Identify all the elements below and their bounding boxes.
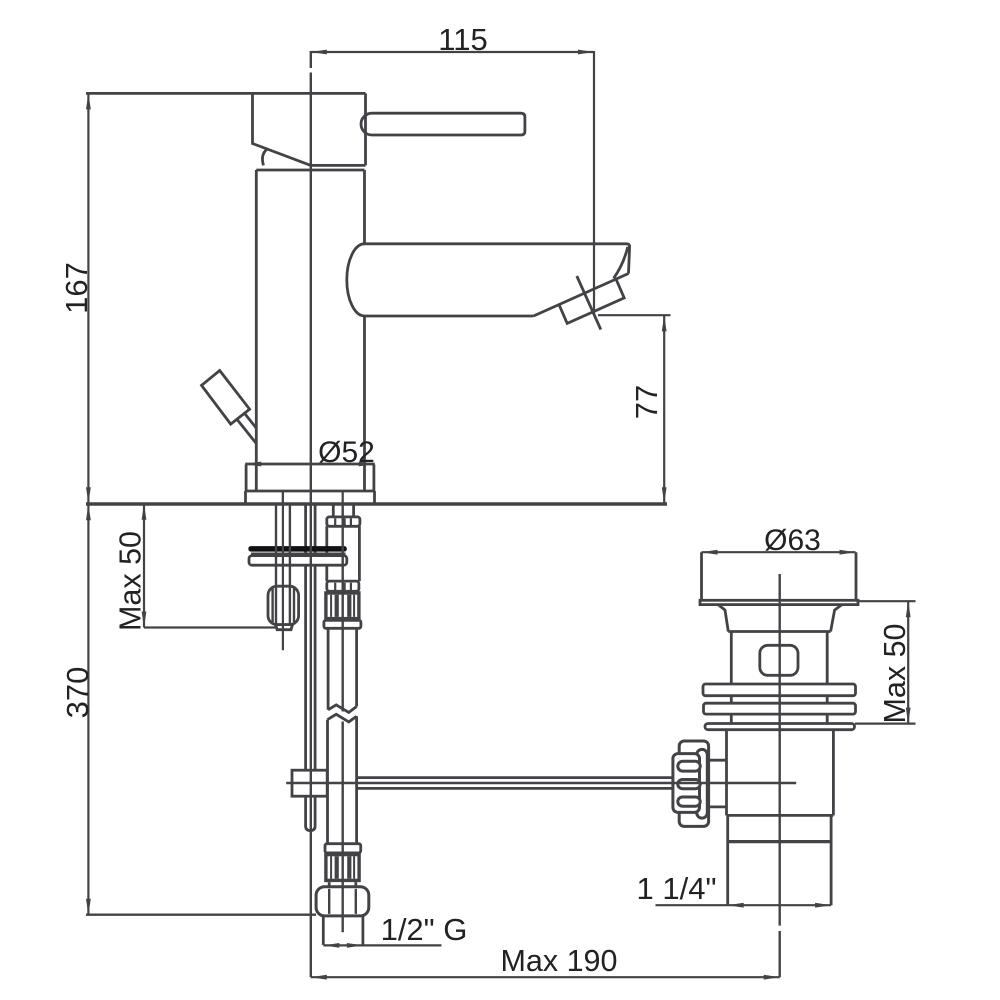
hose flexible tube with break <box>328 628 357 843</box>
dimension lines <box>88 51 915 977</box>
faucet body column <box>256 170 364 491</box>
drain centerline <box>779 574 781 977</box>
spout <box>347 244 630 316</box>
arrowheads <box>86 50 911 980</box>
braided section lower <box>325 853 359 882</box>
drain: upper body <box>731 632 827 685</box>
drain: body stubs 2 <box>731 714 827 723</box>
svg-text:Max 50: Max 50 <box>878 623 912 723</box>
dim Max50 right <box>907 601 909 723</box>
svg-text:77: 77 <box>629 385 664 419</box>
drain: flange body <box>702 552 857 600</box>
hose tail thread <box>323 916 363 945</box>
hose upper tube <box>327 526 360 581</box>
mounting nut <box>268 586 299 624</box>
hose ferrule 2 <box>325 844 361 853</box>
svg-text:1 1/4": 1 1/4" <box>637 871 717 906</box>
threaded stud pair <box>276 504 290 625</box>
drain: clamp pills <box>678 761 700 806</box>
hose hex nut 1/2" <box>316 887 369 916</box>
dim Max 190 <box>311 976 780 978</box>
handle lever <box>361 113 525 135</box>
bottom hose reference line <box>86 914 316 916</box>
dim 1/2 G <box>323 944 441 946</box>
drain: washer plate 1 <box>703 684 856 696</box>
base flange with diameter line <box>245 464 375 504</box>
dim 77 <box>663 315 665 503</box>
svg-text:1/2" G: 1/2" G <box>381 912 468 947</box>
dim 1 1/4 <box>656 904 832 906</box>
drain: coupling line <box>728 840 831 843</box>
svg-text:115: 115 <box>438 22 487 57</box>
drain: washer plate 2 <box>704 703 856 714</box>
hose crown nut 1 <box>327 517 360 526</box>
svg-text:Ø63: Ø63 <box>764 524 821 557</box>
supply hose: top pipe <box>333 506 353 517</box>
drain: neck <box>718 605 842 632</box>
horizontal rod centerline <box>286 782 796 784</box>
deck / countertop line <box>86 502 667 505</box>
drain: clamp boss <box>709 760 727 807</box>
svg-text:167: 167 <box>59 262 94 314</box>
drain: clamp inner <box>673 754 700 813</box>
faucet cap (upper housing) <box>86 93 366 165</box>
aerator (tilted) <box>559 276 624 330</box>
stud centerline <box>282 492 284 650</box>
mounting: black gasket <box>248 546 346 552</box>
dim O63 <box>702 551 856 553</box>
dim 115 <box>311 51 594 53</box>
svg-text:370: 370 <box>60 667 95 719</box>
drain: tailpipe <box>728 815 831 905</box>
svg-text:Ø52: Ø52 <box>318 436 375 469</box>
svg-text:Max 190: Max 190 <box>501 944 618 978</box>
horizontal pop-up rod outline <box>358 778 682 789</box>
dim 167/370 line <box>87 93 89 914</box>
drain: thin washer plate 3 <box>705 724 855 730</box>
long centerline left <box>310 51 312 977</box>
drain: rim <box>700 600 858 604</box>
hose ferrule 1 <box>324 620 361 628</box>
hose centerline <box>342 506 344 933</box>
drain: clamp outer <box>679 741 708 826</box>
drain: overflow hole <box>760 645 798 675</box>
dim Max50 left <box>143 504 145 628</box>
drain: clamp side pill <box>697 749 708 818</box>
rod connector block <box>292 770 327 796</box>
side lever knob <box>202 371 257 444</box>
hose end stubs <box>329 882 356 887</box>
mounting: metal washer <box>249 556 347 566</box>
braided section upper <box>325 591 359 620</box>
drain: lower body <box>727 730 834 816</box>
hose crown nut 2 <box>327 581 359 591</box>
drain: body stubs <box>731 696 827 704</box>
vertical pop-up rod <box>306 504 316 831</box>
mounting: washer line <box>251 552 346 554</box>
svg-text:Max 50: Max 50 <box>114 531 148 631</box>
nut collar <box>276 625 293 630</box>
